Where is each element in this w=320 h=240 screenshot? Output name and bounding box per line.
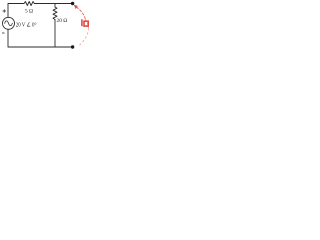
wire stub from top rail into resistor R2 [54,4,56,8]
svg-text:20 V ∠ 0°: 20 V ∠ 0° [16,21,37,28]
sine wave inside source [5,21,13,26]
resistor R1 5ohm (horizontal zigzag) [24,2,34,6]
wire top rail to terminal a [34,3,71,5]
red annotation arc lower half (dashed, faint) [79,28,89,46]
red arrowhead pointing at node a [74,5,78,9]
node b terminal dot (bottom right) [71,45,74,48]
svg-text:5 Ω: 5 Ω [25,9,33,15]
minus polarity mark [2,32,5,34]
svg-text:20 Ω: 20 Ω [57,18,68,24]
wire from R2 down to bottom rail [54,20,56,48]
red annotation arc middle segment behind label [85,19,88,28]
wire top-left from source to resistor R1 [8,4,24,18]
node a terminal dot (top right) [71,2,74,5]
red annotation arc upper half (voltage arrow toward node a) [76,7,86,20]
plus polarity mark [3,9,7,12]
ac source E circle [3,17,15,29]
red label ETh [81,19,88,26]
wire bottom rail [8,29,72,47]
resistor R2 20ohm (vertical zigzag) [53,7,57,20]
